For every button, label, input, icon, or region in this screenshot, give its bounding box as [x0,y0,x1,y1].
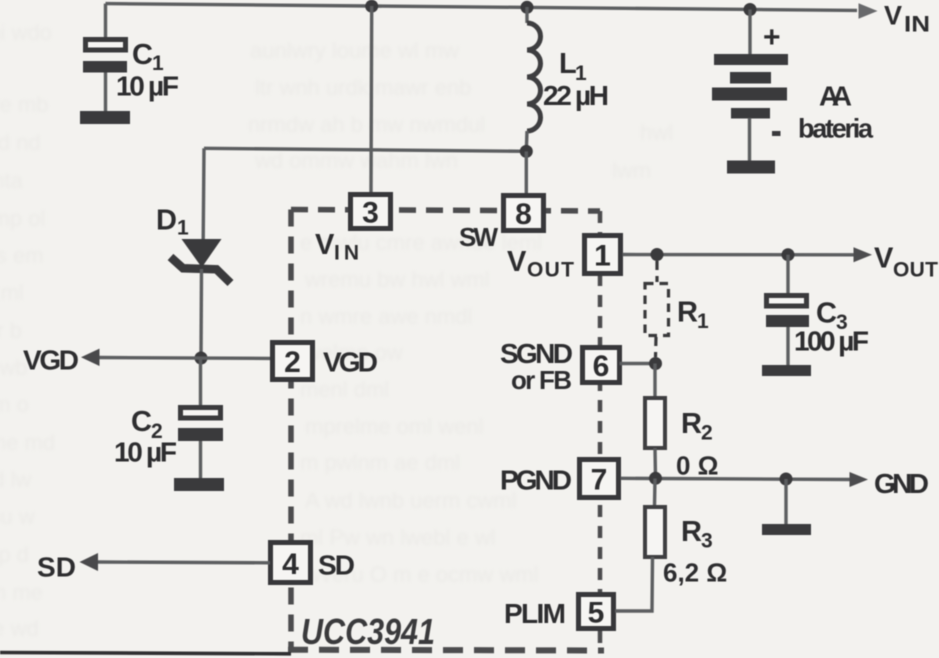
svg-text:aunlwry loume wl mw: aunlwry loume wl mw [250,38,459,63]
node: junction top rail / L1 [521,1,534,14]
pin label VOUT (pin 1) [507,246,574,282]
svg-text:3: 3 [362,197,379,230]
pin 7 box [580,460,619,498]
value label 10 µF (C1) [116,71,179,102]
svg-text:V: V [315,229,335,261]
wire: node to R2 [653,364,656,398]
svg-text:0 Ω: 0 Ω [676,451,719,481]
svg-text:PLIM: PLIM [504,598,566,629]
svg-text:wremu bw hwl wml: wremu bw hwl wml [304,267,490,292]
svg-text:nd ml: nd ml [0,280,24,305]
resistor R1 (optional, dashed) [645,284,669,336]
wire: R3 to pin 5 [615,557,653,611]
svg-text:C: C [132,39,153,71]
svg-text:R: R [677,297,698,329]
label L1 [559,48,587,85]
pin 6 box [583,348,620,384]
battery BT1 (AA) [712,21,788,161]
pin 5 box [579,595,614,630]
svg-text:AA: AA [819,81,852,112]
svg-text:IN: IN [904,12,930,37]
wire: down to ground (GND) [784,479,787,524]
wire: pin 6 to node [620,362,656,365]
label R2 [681,408,713,445]
label UCC3941 [301,611,435,652]
resistor R2 [645,398,665,448]
svg-text:22 µH: 22 µH [543,80,609,111]
svg-text:ter b: ter b [0,318,22,343]
pin 2 box [273,343,313,380]
net label GND [874,468,929,499]
svg-text:m pwlnm ae dml: m pwlnm ae dml [300,450,460,475]
label C3 [816,298,848,335]
svg-text:1: 1 [697,310,709,333]
svg-text:6: 6 [593,350,610,383]
pin label SD (pin 4) [318,550,355,581]
node: junction pin7 / R2 / R3 [649,472,662,485]
svg-text:hm o: hm o [0,392,29,417]
node: junction VOUT / C3 [782,248,795,261]
svg-text:SD: SD [37,552,76,583]
svg-text:OUT: OUT [893,259,938,282]
svg-text:7: 7 [591,464,608,497]
svg-text:GND: GND [874,468,929,499]
wire: down to C1 [104,4,107,38]
wire: battery to top rail [748,10,751,56]
svg-text:2: 2 [701,422,713,445]
label C1 [132,39,164,75]
pin 4 box [271,543,311,583]
wire: VOUT rail [623,253,857,257]
value label 10 µF (C2) [114,437,177,468]
ground (C3) [762,365,811,376]
diode D1 (zener) [171,148,231,356]
svg-text:5: 5 [588,597,605,630]
svg-text:ml Pw wn lwebl e wl: ml Pw wn lwebl e wl [300,525,496,550]
wire: GND rail [621,478,853,479]
net label SD (left) [37,552,76,583]
pin label VGD (pin 2) [323,347,378,378]
svg-text:4: 4 [282,548,299,581]
net label VIN (top right) [884,1,930,37]
label C2 [131,406,163,443]
pin label SW (pin 8) [459,222,498,252]
ground (C1) [80,111,130,124]
label R1 [677,297,709,334]
svg-text:100 µF: 100 µF [794,326,869,357]
label D1 [156,205,189,240]
wire: L1 junction down to pin 8 [525,151,528,193]
svg-text:R: R [681,408,702,440]
svg-text:pre mb: pre mb [0,92,48,117]
svg-text:D: D [156,205,177,237]
svg-text:wme md: wme md [0,430,55,455]
svg-text:+: + [763,21,781,54]
pin label SGND or FB (pin 6) [500,338,573,395]
op IC U1 UCC3941 dashed outline [288,210,604,651]
svg-text:1: 1 [594,240,611,273]
svg-text:lwm: lwm [612,158,651,183]
svg-text:VGD: VGD [323,347,378,378]
wire: VGD rail [98,356,271,360]
svg-text:10 µF: 10 µF [114,437,177,468]
wire: C3 to VOUT rail [786,255,789,294]
svg-text:nrmdw ah b mw nwmdul: nrmdw ah b mw nwmdul [248,112,485,137]
wire: top VIN rail [106,4,858,11]
resistor R3 [645,507,665,557]
svg-text:10 µF: 10 µF [116,71,179,102]
svg-text:IN: IN [334,242,359,265]
ground (battery) [727,161,775,174]
svg-text:ws em: ws em [0,243,44,268]
svg-text:VGD: VGD [23,345,79,376]
pin 1 box [585,236,621,274]
svg-text:emu w: emu w [0,504,35,529]
svg-text:ami wdo: ami wdo [0,20,52,45]
capacitor C2 [178,408,223,480]
svg-text:6,2 Ω: 6,2 Ω [663,558,727,588]
svg-text:A wd lwnb uerm cwml: A wd lwnb uerm cwml [305,488,517,513]
svg-text:1: 1 [177,217,189,240]
value label 6,2 Ω [663,558,727,588]
arrow VGD (left) [81,349,100,366]
value label 22 µH [543,80,609,111]
svg-text:hwl: hwl [640,120,673,145]
pin 3 box [351,195,391,230]
bottom rule line [0,653,291,654]
net label VGD (left) [23,345,79,376]
arrow VOUT [854,247,873,262]
capacitor C1 [83,40,127,113]
node: junction top rail / C1 branch column x372 [365,0,378,13]
arrow VIN [859,3,878,18]
node: junction pin6 / R1 / R2 [649,357,662,370]
svg-text:nd lw: nd lw [0,467,31,492]
wire: SD rail [97,560,270,564]
node: junction SW / L1 bottom [520,145,533,158]
svg-text:V: V [507,246,527,278]
wire: SW node horizontal (D1 top to L1 bottom) [204,148,526,151]
svg-text:SD: SD [318,550,355,581]
net label VOUT (right) [874,243,938,282]
pin 8 box [504,196,544,232]
svg-text:PGND: PGND [500,465,572,496]
svg-text:n wmre awe nmdl: n wmre awe nmdl [300,304,472,329]
label AA bateria [798,81,874,144]
svg-text:ne wd: ne wd [0,616,39,641]
wire: vertical from top rail to pin 3 [369,6,373,192]
node: junction VGD / D1 / C2 [195,352,208,365]
wire: R2 to GND node [653,448,657,479]
svg-text:wm me: wm me [0,580,43,605]
svg-text:bateria: bateria [798,114,874,144]
svg-text:enta: enta [0,168,24,193]
value label 0 Ω [676,451,719,481]
capacitor C3 [766,296,809,367]
inductor L1 [526,7,540,151]
node: junction top rail / battery [744,3,757,16]
svg-text:UCC3941: UCC3941 [301,611,435,652]
ground (C2) [174,478,224,491]
svg-text:V: V [884,1,902,31]
arrow GND [850,472,869,487]
svg-text:2: 2 [284,346,301,379]
svg-text:V: V [874,243,894,275]
wire: dashed R1 to node 6 [654,337,658,357]
svg-text:remp ol: remp ol [0,206,45,231]
pin label VIN (pin 3) [315,229,359,265]
ground (GND rail) [762,524,811,535]
label R3 [681,516,713,553]
svg-text:ltr wnh urdk mawr enb: ltr wnh urdk mawr enb [255,75,471,100]
wire: junction down to C2 [199,357,202,406]
wire: dashed VOUT to R1 [655,261,658,282]
svg-text:berd nd: berd nd [0,130,41,155]
arrow SD (left) [80,553,99,571]
svg-text:3: 3 [701,530,713,553]
svg-text:8: 8 [515,198,532,231]
value label 100 µF [794,326,869,357]
svg-text:SW: SW [459,222,498,252]
svg-text:mp d: mp d [0,542,29,567]
svg-text:C: C [131,406,152,438]
svg-text:or FB: or FB [511,365,572,395]
svg-text:R: R [681,516,702,548]
pin label PGND (pin 7) [500,465,572,496]
svg-text:OUT: OUT [527,259,574,282]
pin label PLIM (pin 5) [504,598,566,629]
node: junction VOUT / R1 [651,248,664,261]
node: junction GND rail / ground [780,473,793,486]
wire: node to R3 [653,479,657,507]
svg-text:mprelme oml wenl: mprelme oml wenl [305,414,484,439]
